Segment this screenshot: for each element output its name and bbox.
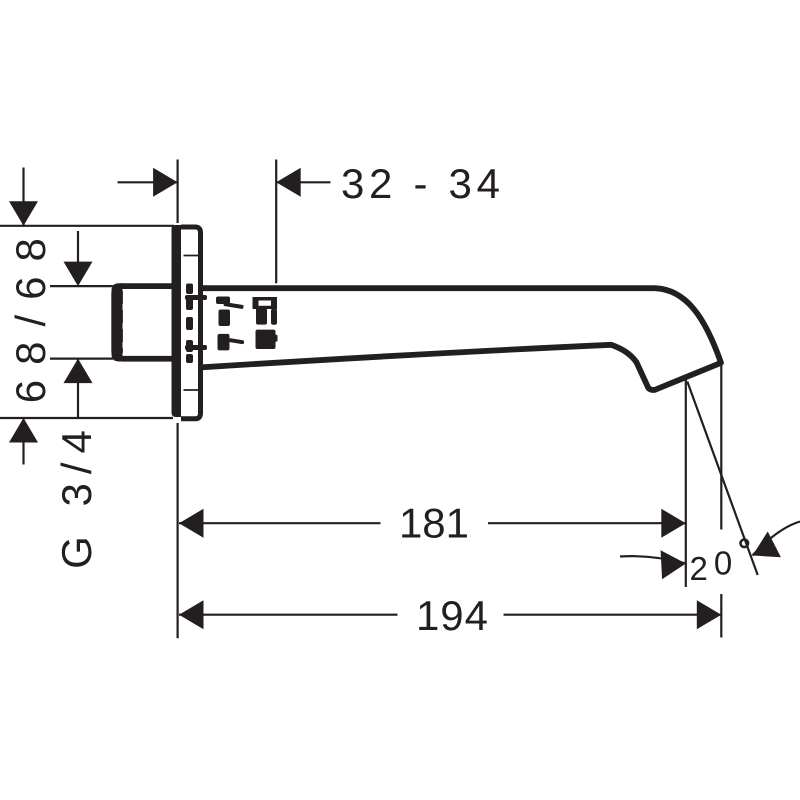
svg-text:32 - 34: 32 - 34 <box>341 160 505 207</box>
svg-text:G 3/4: G 3/4 <box>53 421 100 569</box>
svg-text:181: 181 <box>399 500 469 547</box>
svg-text:20: 20 <box>690 545 739 588</box>
svg-text:194: 194 <box>416 592 489 639</box>
svg-text:68/68: 68/68 <box>7 223 54 403</box>
